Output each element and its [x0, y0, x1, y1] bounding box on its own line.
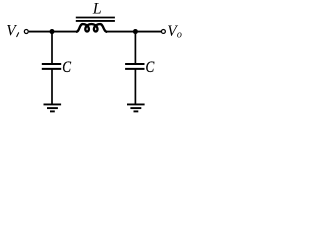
- terminal Vo: [161, 30, 165, 34]
- wire C1 to ground: [51, 69, 53, 104]
- svg-text:C: C: [146, 59, 155, 76]
- capacitor C2 plate bottom: [125, 68, 144, 70]
- wire node B down to C2: [134, 32, 136, 64]
- label C2: [146, 59, 155, 76]
- node A: [49, 29, 54, 34]
- wire Vi to node A: [29, 31, 52, 33]
- node B: [133, 29, 138, 34]
- svg-text:L: L: [92, 1, 102, 18]
- inductor L coil: [76, 24, 107, 32]
- label Vo: [167, 23, 182, 41]
- wire inductor to node B: [107, 31, 136, 33]
- label L: [92, 1, 102, 18]
- inductor core line 2: [76, 20, 115, 22]
- wire C2 to ground: [134, 69, 136, 104]
- wire node A to inductor: [52, 31, 78, 33]
- capacitor C1 plate bottom: [42, 68, 61, 70]
- capacitor C1 plate top: [42, 63, 61, 65]
- inductor core line 1: [76, 17, 115, 19]
- capacitor C2 plate top: [125, 63, 144, 65]
- ground G1: [44, 104, 62, 111]
- label C1: [62, 59, 71, 76]
- svg-text:o: o: [177, 30, 182, 41]
- wire node A down to C1: [51, 32, 53, 64]
- svg-text:V: V: [6, 22, 17, 39]
- label Vi: [6, 22, 19, 39]
- terminal Vi: [24, 30, 28, 34]
- svg-text:C: C: [62, 59, 71, 76]
- ground G2: [127, 104, 145, 111]
- wire node B to Vo: [135, 31, 161, 33]
